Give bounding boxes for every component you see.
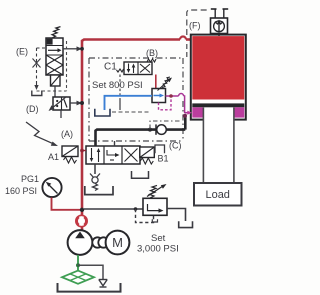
- svg-text:160 PSI: 160 PSI: [5, 186, 37, 196]
- spring on valve E: [52, 27, 60, 38]
- svg-text:3,000 PSI: 3,000 PSI: [137, 244, 179, 255]
- blue reduced pressure line: [105, 96, 153, 110]
- tank bracket under E drain: [32, 91, 42, 96]
- arrow across spring of valve B: [158, 78, 173, 91]
- gauge PG1: [42, 178, 61, 197]
- valve E: solenoid valve upper left: [46, 38, 63, 75]
- wire: red pilot from C1 down to valve B: [155, 75, 157, 89]
- node: junction dot on magenta at valve B outlet: [169, 94, 173, 98]
- svg-text:Set: Set: [151, 233, 166, 244]
- green suction line: [77, 255, 79, 271]
- svg-text:(A): (A): [61, 129, 73, 139]
- tank bracket under B1 spring: [132, 171, 149, 178]
- filter strainer diamond: [62, 271, 94, 284]
- magenta line: valve B out to cylinder rod end: [166, 94, 190, 114]
- main tank bracket: [58, 283, 121, 292]
- lightning bolt to solenoid A1: [26, 122, 58, 146]
- check valve in tank: [99, 280, 107, 288]
- manual arrow on valve D: [49, 97, 67, 112]
- wire: relief inlet line: [84, 208, 143, 210]
- dashed pilot line from C1 left down: [119, 75, 121, 111]
- svg-text:(D): (D): [26, 104, 39, 114]
- wire: DCV tank port down: [94, 164, 96, 174]
- load box: [194, 183, 242, 206]
- wire: red gauge line: [52, 198, 81, 210]
- arrowhead into rod-end port: [187, 111, 192, 115]
- arrow across relief spring: [147, 184, 167, 197]
- svg-text:M: M: [112, 235, 123, 250]
- red coupling symbol on pump line: [76, 215, 87, 226]
- wire: D drain down: [60, 110, 62, 118]
- svg-text:A1: A1: [48, 152, 59, 162]
- svg-text:B1: B1: [158, 154, 169, 164]
- dash enclosure branch up to component F: [187, 10, 209, 57]
- small drain bracket under relief valve: [152, 219, 157, 222]
- pump: [68, 230, 93, 255]
- valve D: small pilot valve: [53, 97, 70, 110]
- spring of valve B: [162, 77, 170, 88]
- spring under A1: [64, 157, 77, 163]
- dashed line: inner boundary under valve B: [112, 111, 149, 113]
- dash-dot enclosure: manifold block around (B)/(C): [89, 58, 183, 141]
- svg-text:Load: Load: [205, 189, 229, 201]
- dashed pilot to check valve: [150, 121, 181, 129]
- tank bracket for blue line: [95, 109, 110, 116]
- relief valve Set 3000 PSI: [143, 198, 167, 215]
- node: D junction on red line: [80, 101, 84, 105]
- dashed magenta pilot loop under valve B: [159, 98, 172, 110]
- valve B: pressure reducing valve: [152, 89, 166, 103]
- node: pilot tee on relief inlet: [134, 207, 138, 211]
- check valve with spring under DCV: [90, 174, 100, 191]
- solenoid A1: [62, 146, 78, 157]
- electric motor: [106, 231, 130, 255]
- svg-text:(E): (E): [16, 47, 28, 57]
- svg-text:C1: C1: [104, 62, 117, 73]
- wire: relief outlet to tank: [167, 209, 186, 222]
- dashed drain line left of valve E with closed symbol: [33, 48, 47, 87]
- open bracket above B1: [155, 145, 165, 153]
- dashed pilot under relief valve: [136, 209, 154, 223]
- wire: valve E to red line with arrow: [63, 46, 82, 51]
- piston rod: [203, 108, 234, 184]
- svg-text:PG1: PG1: [21, 174, 39, 184]
- node: E junction on red line: [80, 47, 84, 51]
- tank bracket for relief: [179, 221, 193, 227]
- spring right of C1: [147, 59, 156, 62]
- svg-text:Set 800 PSI: Set 800 PSI: [92, 80, 143, 91]
- wire: E to D: [54, 86, 56, 97]
- node: junction on work line: [148, 128, 152, 132]
- spring of relief valve: [150, 185, 158, 198]
- tank bracket under DCV drain: [85, 186, 113, 195]
- spring left of C1: [117, 69, 124, 72]
- solenoid B1: [140, 147, 155, 158]
- svg-text:(C): (C): [169, 141, 182, 151]
- heavy work line A from DCV to cylinder via check: [96, 116, 186, 146]
- wire: D to red line with arrow: [70, 101, 82, 106]
- arrow down to tank from valve E drain: [34, 85, 38, 90]
- node: junction magenta/black: [183, 114, 187, 118]
- component F: flow control on cylinder top: [211, 9, 229, 36]
- main DCV body valve A: [86, 146, 140, 164]
- valve C1: 2-position valve: [124, 62, 152, 75]
- pilot-operated check valve C: [156, 124, 166, 134]
- svg-text:(B): (B): [146, 48, 158, 58]
- wire: main red pressure line from pump to cylinder cap end: [82, 37, 192, 231]
- node: red line connection at DCV: [80, 149, 84, 153]
- node: junction red tee: [80, 208, 84, 212]
- node: green junction: [76, 263, 80, 267]
- dashed enclosure right of valve E: [37, 41, 67, 91]
- cylinder barrel: [191, 35, 246, 120]
- drain line to tank check: [78, 265, 103, 279]
- svg-text:(F): (F): [189, 21, 201, 31]
- restrictor box under valve E: [51, 75, 61, 86]
- spring under B1: [140, 158, 153, 164]
- wire: DCV B-port stub: [114, 141, 116, 146]
- coupling between pump and motor: [92, 237, 108, 247]
